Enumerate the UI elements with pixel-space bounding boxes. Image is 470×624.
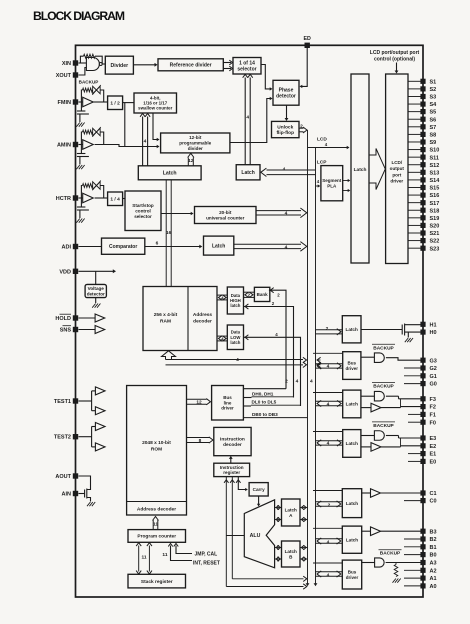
- svg-text:4: 4: [296, 379, 299, 385]
- svg-text:B2: B2: [430, 537, 437, 543]
- svg-text:TEST1: TEST1: [54, 399, 71, 405]
- svg-text:Program counter: Program counter: [137, 534, 176, 540]
- svg-text:PLA: PLA: [327, 184, 337, 189]
- svg-text:256 x 4-bit: 256 x 4-bit: [154, 312, 178, 318]
- svg-text:HOLD: HOLD: [55, 316, 71, 322]
- svg-text:16: 16: [166, 230, 172, 236]
- svg-text:B0: B0: [430, 553, 437, 559]
- svg-text:4: 4: [236, 357, 239, 363]
- svg-text:port: port: [392, 172, 401, 177]
- svg-text:INT, RESET: INT, RESET: [193, 561, 220, 567]
- svg-text:Latch: Latch: [285, 507, 297, 512]
- svg-text:latch: latch: [230, 303, 240, 308]
- svg-text:2: 2: [300, 124, 303, 130]
- svg-text:S16: S16: [430, 193, 440, 199]
- svg-text:Latch: Latch: [285, 549, 297, 554]
- svg-text:S12: S12: [430, 163, 440, 169]
- svg-text:S23: S23: [430, 246, 440, 252]
- svg-text:B3: B3: [430, 529, 437, 535]
- svg-text:Latch: Latch: [346, 501, 358, 506]
- svg-text:BACKUP: BACKUP: [373, 423, 394, 429]
- svg-text:11: 11: [153, 522, 158, 528]
- svg-text:Bus: Bus: [348, 569, 357, 574]
- svg-text:H1: H1: [430, 322, 437, 328]
- svg-text:control: control: [135, 208, 151, 213]
- svg-text:Start/stop: Start/stop: [132, 203, 154, 208]
- svg-text:4: 4: [327, 364, 330, 370]
- svg-text:S17: S17: [430, 201, 440, 207]
- svg-text:BACKUP: BACKUP: [373, 345, 394, 351]
- svg-text:driver: driver: [390, 179, 403, 184]
- svg-text:12: 12: [188, 158, 194, 164]
- svg-text:A1: A1: [430, 576, 437, 582]
- svg-text:F2: F2: [430, 405, 436, 411]
- svg-text:BACKUP: BACKUP: [79, 79, 99, 84]
- svg-text:S2: S2: [430, 87, 437, 93]
- svg-text:4: 4: [310, 379, 313, 385]
- svg-text:DL0 to DL5: DL0 to DL5: [252, 400, 277, 405]
- svg-text:4: 4: [327, 401, 330, 407]
- svg-text:S15: S15: [430, 186, 440, 192]
- svg-text:LCD port/output port: LCD port/output port: [370, 50, 420, 56]
- svg-text:flip-flop: flip-flop: [276, 130, 294, 136]
- svg-text:Comparator: Comparator: [109, 244, 137, 250]
- svg-text:20-bit: 20-bit: [219, 210, 232, 215]
- svg-text:4: 4: [327, 573, 330, 579]
- svg-text:Latch: Latch: [212, 243, 225, 249]
- svg-text:4: 4: [327, 441, 330, 447]
- svg-text:S18: S18: [430, 208, 440, 214]
- svg-text:A2: A2: [430, 568, 437, 574]
- svg-text:Latch: Latch: [346, 327, 358, 332]
- svg-text:ED: ED: [304, 36, 312, 42]
- svg-text:2: 2: [285, 379, 288, 385]
- svg-text:driver: driver: [346, 575, 359, 580]
- svg-text:latch: latch: [230, 340, 240, 345]
- svg-text:Voltage: Voltage: [88, 286, 105, 291]
- svg-text:Latch: Latch: [241, 170, 254, 176]
- svg-text:Divider: Divider: [111, 63, 129, 69]
- svg-text:A0: A0: [430, 584, 437, 590]
- svg-text:G3: G3: [430, 358, 437, 364]
- svg-text:1 / 2: 1 / 2: [110, 100, 120, 106]
- svg-text:Latch: Latch: [346, 402, 358, 407]
- svg-text:11: 11: [141, 555, 146, 561]
- svg-text:BACKUP: BACKUP: [373, 384, 394, 390]
- svg-text:2048 x 10-bit: 2048 x 10-bit: [142, 440, 171, 446]
- svg-text:E3: E3: [430, 436, 437, 442]
- svg-text:12: 12: [196, 399, 202, 405]
- svg-text:Unlock: Unlock: [277, 124, 293, 130]
- svg-text:11: 11: [162, 552, 167, 558]
- svg-text:4: 4: [285, 244, 288, 250]
- svg-text:S7: S7: [430, 125, 437, 131]
- svg-text:universal counter: universal counter: [206, 215, 245, 220]
- svg-text:Segment: Segment: [322, 178, 342, 183]
- svg-text:2: 2: [326, 326, 329, 332]
- svg-text:Latch: Latch: [346, 537, 358, 542]
- svg-text:Latch: Latch: [346, 441, 358, 446]
- svg-text:LCD/: LCD/: [391, 160, 402, 165]
- svg-text:Latch: Latch: [163, 171, 177, 177]
- svg-text:Carry: Carry: [253, 487, 265, 492]
- svg-text:ADI: ADI: [62, 245, 72, 251]
- svg-text:C0: C0: [430, 499, 437, 505]
- svg-text:Address decoder: Address decoder: [137, 507, 176, 513]
- svg-text:S1: S1: [430, 79, 437, 85]
- svg-text:8: 8: [199, 438, 202, 444]
- svg-text:AIN: AIN: [62, 492, 72, 498]
- svg-text:XOUT: XOUT: [56, 73, 72, 79]
- svg-text:driver: driver: [221, 406, 234, 411]
- svg-text:E2: E2: [430, 444, 437, 450]
- svg-text:F1: F1: [430, 413, 436, 419]
- svg-text:4: 4: [285, 211, 288, 217]
- svg-text:HCTR: HCTR: [56, 196, 71, 202]
- svg-text:decoder: decoder: [193, 319, 212, 325]
- svg-text:RAM: RAM: [160, 319, 171, 325]
- svg-text:ROM: ROM: [151, 447, 162, 453]
- svg-text:Latch: Latch: [354, 167, 367, 173]
- svg-text:VDD: VDD: [59, 269, 71, 275]
- svg-text:driver: driver: [346, 366, 359, 371]
- svg-text:selector: selector: [134, 214, 152, 219]
- svg-text:swallow counter: swallow counter: [138, 106, 172, 111]
- svg-text:4: 4: [246, 115, 249, 121]
- svg-text:Stack register: Stack register: [141, 579, 173, 585]
- svg-text:S20: S20: [430, 224, 440, 230]
- svg-text:FMIN: FMIN: [58, 100, 71, 106]
- svg-text:control (optional): control (optional): [374, 56, 415, 62]
- svg-text:BLOCK DIAGRAM: BLOCK DIAGRAM: [33, 9, 125, 23]
- svg-text:DB0 to DB3: DB0 to DB3: [252, 412, 278, 417]
- svg-text:G1: G1: [430, 374, 437, 380]
- svg-text:divider: divider: [188, 146, 203, 151]
- svg-text:XIN: XIN: [62, 61, 71, 67]
- svg-text:S3: S3: [430, 95, 437, 101]
- svg-text:A3: A3: [430, 561, 437, 567]
- svg-text:decoder: decoder: [223, 442, 242, 448]
- svg-text:S6: S6: [430, 117, 437, 123]
- svg-text:S4: S4: [430, 102, 438, 108]
- svg-text:Address: Address: [193, 312, 213, 318]
- svg-text:Instruction: Instruction: [220, 436, 245, 442]
- svg-text:programmable: programmable: [179, 141, 211, 146]
- svg-text:S13: S13: [430, 170, 440, 176]
- svg-text:S10: S10: [430, 148, 440, 154]
- svg-text:B1: B1: [430, 545, 437, 551]
- svg-text:AOUT: AOUT: [55, 474, 71, 480]
- svg-text:Bus: Bus: [348, 360, 357, 365]
- svg-text:E1: E1: [430, 452, 437, 458]
- svg-text:C1: C1: [430, 491, 437, 497]
- svg-text:G2: G2: [430, 366, 437, 372]
- svg-text:DH0, DH1: DH0, DH1: [252, 391, 274, 396]
- svg-text:S19: S19: [430, 216, 440, 222]
- svg-text:detector: detector: [276, 94, 296, 100]
- svg-text:S9: S9: [430, 140, 437, 146]
- svg-text:LCP: LCP: [317, 160, 327, 166]
- svg-text:Reference divider: Reference divider: [170, 63, 212, 69]
- svg-text:6: 6: [156, 240, 159, 246]
- svg-text:S21: S21: [430, 231, 440, 237]
- svg-text:Bank: Bank: [257, 292, 269, 297]
- svg-text:AMIN: AMIN: [57, 143, 71, 149]
- svg-text:4: 4: [283, 166, 286, 172]
- svg-text:TEST2: TEST2: [54, 435, 71, 441]
- svg-text:detector: detector: [87, 291, 105, 296]
- svg-text:ALU: ALU: [250, 533, 261, 539]
- svg-text:SNS: SNS: [60, 328, 72, 334]
- svg-text:1 / 4: 1 / 4: [110, 196, 120, 202]
- svg-text:F0: F0: [430, 420, 436, 426]
- svg-text:S14: S14: [430, 178, 441, 184]
- svg-text:selector: selector: [237, 67, 256, 73]
- svg-text:2: 2: [328, 503, 331, 509]
- svg-text:S22: S22: [430, 239, 440, 245]
- svg-text:register: register: [223, 470, 240, 475]
- svg-text:output: output: [390, 166, 405, 171]
- svg-text:E0: E0: [430, 460, 437, 466]
- svg-text:12-bit: 12-bit: [189, 135, 202, 140]
- svg-text:H0: H0: [430, 330, 437, 336]
- svg-text:4: 4: [327, 540, 330, 546]
- svg-text:S11: S11: [430, 155, 439, 161]
- svg-text:JMP, CAL: JMP, CAL: [195, 552, 218, 558]
- svg-text:G0: G0: [430, 382, 437, 388]
- svg-text:F3: F3: [430, 397, 436, 403]
- svg-text:4: 4: [144, 139, 147, 145]
- svg-text:S8: S8: [430, 132, 437, 138]
- svg-text:BACKUP: BACKUP: [380, 551, 401, 557]
- svg-text:S5: S5: [430, 110, 437, 116]
